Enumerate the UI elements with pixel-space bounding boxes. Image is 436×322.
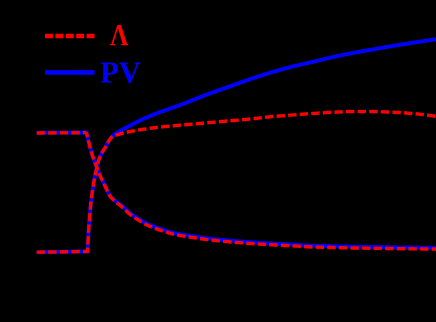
- svg-text:Λ: Λ: [110, 18, 129, 52]
- svg-text:PV: PV: [100, 56, 141, 90]
